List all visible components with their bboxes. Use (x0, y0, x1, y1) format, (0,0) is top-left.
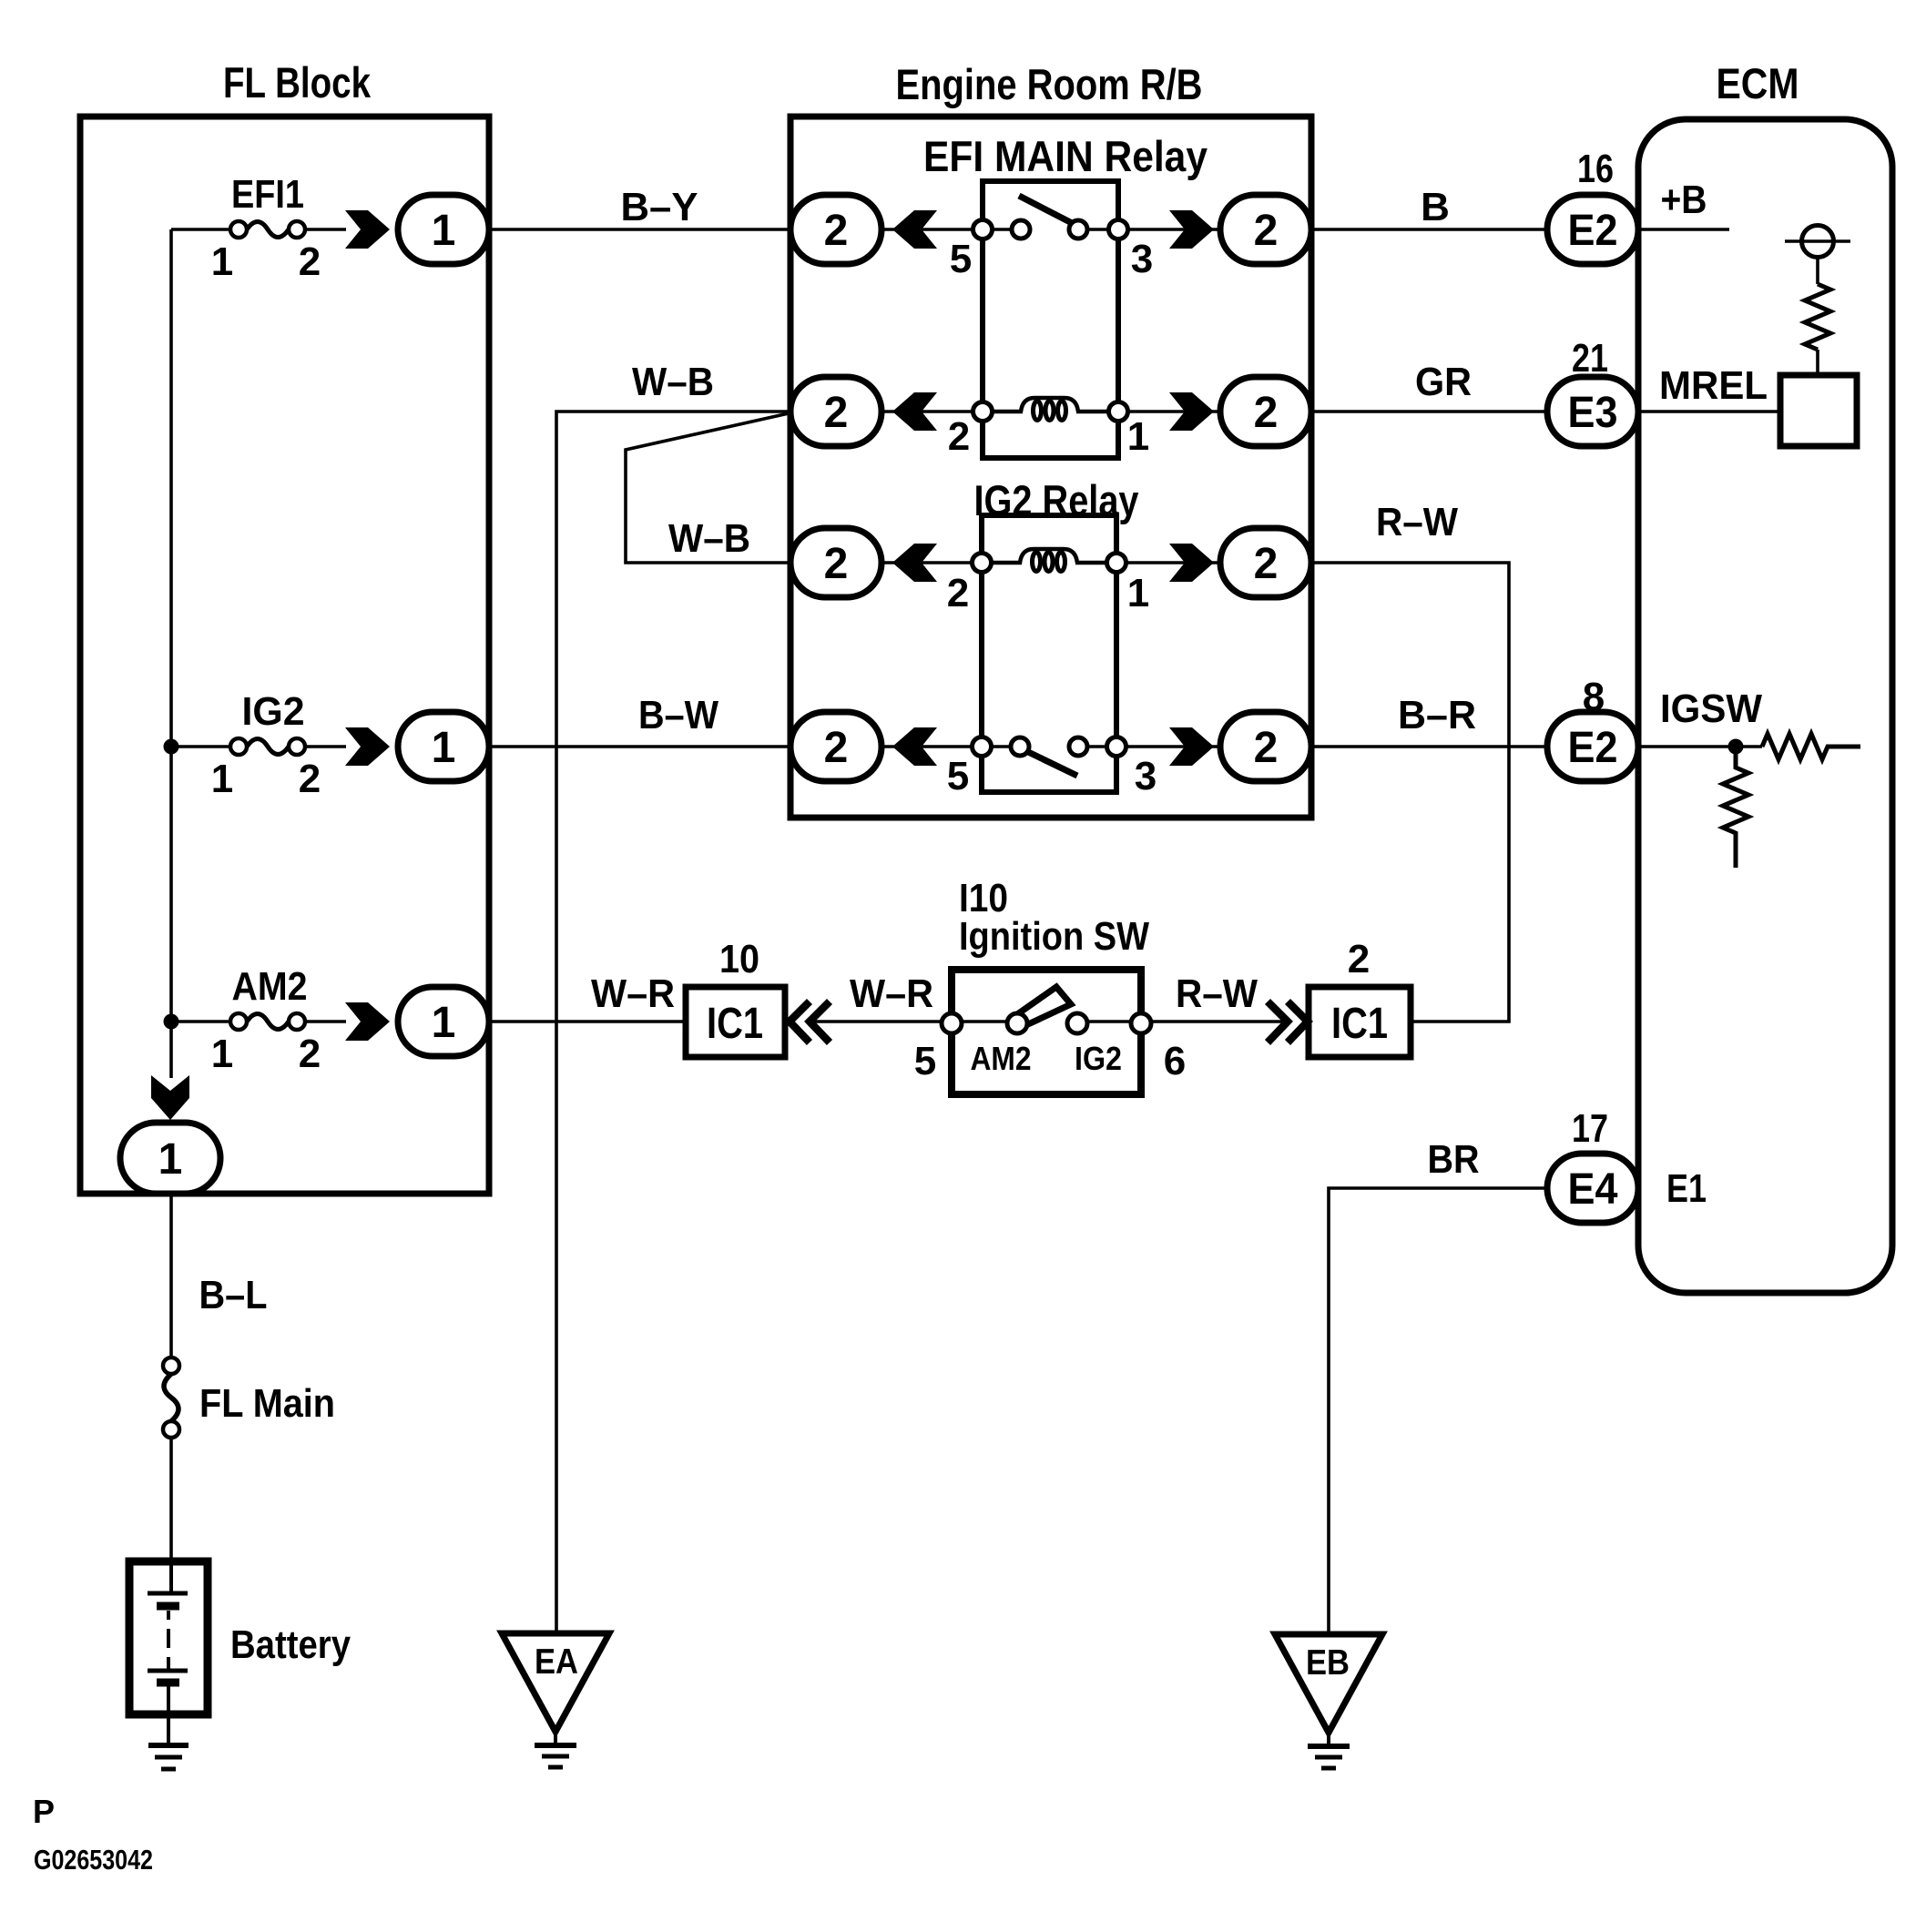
wire FL bus vertical B-L (169, 229, 173, 1078)
wire battery to ground (167, 1683, 170, 1744)
svg-text:2: 2 (947, 571, 969, 615)
svg-text:2: 2 (824, 389, 849, 437)
wire AM2 fuse row left (171, 1020, 230, 1023)
svg-text:IG2: IG2 (1075, 1040, 1122, 1077)
svg-text:1: 1 (432, 999, 456, 1047)
svg-text:IC1: IC1 (1331, 1000, 1388, 1048)
connector oval 2 row4 right (1220, 712, 1311, 781)
svg-text:IG2: IG2 (242, 689, 305, 734)
svg-text:1: 1 (432, 207, 456, 255)
svg-text:16: 16 (1577, 147, 1614, 191)
svg-text:W–R: W–R (850, 971, 933, 1016)
ground EB (1275, 1634, 1382, 1768)
svg-text:2: 2 (299, 239, 321, 284)
wire contact to relay pin3 row4 (1087, 745, 1116, 748)
Battery (129, 1561, 351, 1744)
wire EFI1 row left (171, 228, 230, 231)
wire relay pin3 to oval row1 (1118, 228, 1220, 231)
wire B-Y (489, 228, 790, 231)
wire IG2 fuse row left (171, 745, 230, 748)
svg-text:IGSW: IGSW (1660, 686, 1762, 731)
svg-text:R–W: R–W (1376, 500, 1458, 544)
svg-text:E2: E2 (1568, 207, 1618, 255)
svg-text:G02653042: G02653042 (34, 1844, 153, 1876)
wire into battery (169, 1561, 173, 1593)
relay switch blade (1024, 750, 1077, 776)
ignition pin 6 (1131, 1013, 1151, 1033)
wire pullup through circle (1785, 239, 1850, 243)
svg-text:6: 6 (1164, 1039, 1186, 1083)
connector oval 2 row3 left (790, 528, 881, 597)
wire GR to ECM E3 (1311, 410, 1547, 413)
arrow into connector AM2 (345, 1002, 390, 1041)
svg-text:B–L: B–L (199, 1273, 268, 1317)
arrow row1 right (into right oval) (1169, 210, 1214, 249)
svg-text:B–Y: B–Y (621, 185, 698, 229)
MREL driver module (1780, 375, 1857, 446)
arrow into connector EFI1 (345, 210, 390, 249)
svg-text:EB: EB (1306, 1643, 1350, 1683)
wire R-W ignition to IC1 (1141, 1020, 1287, 1023)
junction dot AM2 row (164, 1014, 179, 1030)
connector oval 1 (FL bottom) (120, 1123, 220, 1194)
wire AM2 fuse to arrow (305, 1020, 346, 1023)
svg-text:W–R: W–R (591, 971, 675, 1016)
connector oval 2 row1 right (1220, 195, 1311, 264)
svg-text:Engine Room R/B: Engine Room R/B (896, 60, 1203, 108)
svg-text:Battery: Battery (230, 1622, 351, 1667)
EFI MAIN Relay (923, 132, 1208, 459)
arrow row4 left (892, 727, 937, 766)
svg-text:ECM: ECM (1717, 59, 1799, 107)
arrow row3 left (892, 544, 937, 582)
connector oval 2 row1 left (790, 195, 881, 264)
wire W-B diagonal branch (626, 413, 790, 563)
wire R-W relay to IC1 (1309, 563, 1509, 1022)
svg-text:1: 1 (211, 239, 233, 284)
ECM connector E2 pin8 (1547, 675, 1762, 781)
FL Block box (80, 117, 489, 1194)
Engine Room R/B box (790, 117, 1311, 818)
connector oval 1 (IG2) (398, 712, 489, 781)
ECM internal pull-up circuit (1780, 226, 1857, 447)
svg-text:E4: E4 (1568, 1165, 1618, 1214)
svg-text:1: 1 (1127, 571, 1149, 615)
wire row3 oval to coil pin2 (881, 561, 992, 564)
svg-text:FL Block: FL Block (223, 58, 372, 107)
svg-text:17: 17 (1572, 1106, 1608, 1151)
ground EA (502, 1633, 609, 1767)
ignition contact AM2 (1007, 1013, 1027, 1033)
ignition pin 5 (942, 1013, 962, 1033)
Ignition SW I10 (914, 876, 1186, 1094)
svg-text:10: 10 (719, 937, 759, 981)
svg-text:EFI MAIN Relay: EFI MAIN Relay (923, 132, 1208, 180)
plate long bottom (148, 1669, 188, 1673)
svg-text:1: 1 (158, 1135, 183, 1184)
svg-text:5: 5 (947, 754, 969, 798)
svg-text:E3: E3 (1568, 389, 1618, 437)
svg-text:21: 21 (1572, 336, 1608, 381)
svg-text:GR: GR (1415, 360, 1472, 404)
junction dot IG2 row (164, 739, 179, 755)
wire B-W (489, 745, 790, 748)
wire coil pin1 to oval row2 (1108, 410, 1220, 413)
wire pullup resistor to module (1816, 350, 1819, 375)
relay pin 5 (973, 220, 993, 239)
wire inside IG2 to pin6 (1077, 1020, 1141, 1023)
svg-text:B: B (1421, 185, 1450, 229)
relay pin 5 (973, 737, 992, 757)
ground below battery (148, 1745, 189, 1769)
svg-text:BR: BR (1428, 1137, 1480, 1182)
wire W-B row2 (556, 412, 790, 1633)
fuse IG2 (211, 689, 321, 801)
svg-text:2: 2 (299, 757, 321, 801)
svg-text:P: P (33, 1793, 55, 1830)
arrow into connector IG2 (345, 727, 390, 766)
FL Main fusible link (163, 1357, 335, 1438)
wire IG2 fuse to arrow (305, 745, 346, 748)
connector IC1 (2) (1268, 937, 1411, 1057)
wire IGSW row (1638, 745, 1762, 748)
svg-text:1: 1 (211, 1032, 233, 1076)
ECM connector E2 pin16 (1547, 147, 1707, 264)
relay pin 1 (1109, 402, 1128, 422)
svg-text:2: 2 (1254, 207, 1279, 255)
svg-text:E2: E2 (1568, 724, 1618, 772)
wire relay pin5 to contact row4 (982, 745, 1011, 748)
svg-text:W–B: W–B (632, 360, 714, 404)
svg-text:IC1: IC1 (707, 1000, 763, 1048)
wire ignition pin5 to AM2 contact (952, 1020, 1017, 1023)
connector oval 1 (AM2) (398, 987, 489, 1056)
ECM connector E4 pin17 (1547, 1106, 1707, 1223)
relay pin 3 (1109, 220, 1128, 239)
svg-text:2: 2 (1254, 540, 1279, 588)
wire pullup circle to resistor (1816, 256, 1819, 284)
pull-up terminal circle (1802, 226, 1834, 258)
wire FL Main to battery (169, 1438, 173, 1561)
wire IC1 to ignition sw pin5 (810, 1020, 952, 1023)
IG2 Relay (947, 476, 1157, 798)
connector oval 2 row4 left (790, 712, 881, 781)
plate short thick top (157, 1602, 179, 1611)
svg-text:W–B: W–B (668, 516, 750, 561)
svg-text:IG2 Relay: IG2 Relay (974, 476, 1139, 524)
relay coil (992, 549, 1106, 563)
relay contact circles row4 (1011, 737, 1029, 756)
ignition contact IG2 (1067, 1013, 1087, 1033)
wire coil pin1 to oval row3 (1106, 561, 1220, 564)
chevrons pointing right (1268, 1002, 1288, 1042)
wire B-R to ECM E2 (1311, 745, 1545, 748)
plate long top (148, 1591, 188, 1596)
wire relay pin5 to contact (983, 228, 1012, 231)
plate short thick bottom (157, 1679, 179, 1687)
svg-text:R–W: R–W (1176, 971, 1258, 1016)
arrow row2 left (892, 392, 937, 431)
connector IC1 (10) (686, 937, 830, 1057)
wire contact to relay pin3 (1087, 228, 1118, 231)
arrow row3 right (1169, 544, 1214, 582)
wire BR from ECM E4 to EB (1329, 1188, 1547, 1634)
resistor horizontal (1762, 734, 1860, 759)
svg-text:+B: +B (1661, 178, 1707, 222)
svg-text:2: 2 (948, 414, 970, 459)
svg-text:1: 1 (432, 724, 456, 772)
wire B to ECM E2 (1311, 228, 1547, 231)
svg-text:3: 3 (1131, 237, 1153, 281)
arrow row2 right (1169, 392, 1214, 431)
wire MREL to module (1638, 410, 1780, 413)
svg-text:FL Main: FL Main (199, 1381, 335, 1426)
svg-text:5: 5 (950, 237, 972, 281)
fuse AM2 (211, 964, 321, 1076)
pull-up resistor (1805, 284, 1830, 350)
svg-text:1: 1 (211, 757, 233, 801)
wire IG2 contact to pin6 (1077, 1020, 1141, 1023)
wire +B stub (1638, 228, 1729, 231)
fuse EFI1 (211, 172, 321, 284)
relay contact circles row1 (1012, 220, 1030, 239)
arrow down to FL bottom connector (151, 1075, 189, 1120)
relay pin 1 (1107, 554, 1126, 573)
svg-text:2: 2 (824, 207, 849, 255)
svg-text:3: 3 (1135, 754, 1157, 798)
relay pin 2 (973, 554, 992, 573)
wire inside pin5 to AM2 (952, 1020, 1017, 1023)
ECM connector E3 pin21 (1547, 336, 1768, 446)
svg-text:AM2: AM2 (232, 964, 308, 1009)
relay switch blade (1019, 196, 1075, 225)
svg-text:E1: E1 (1666, 1166, 1707, 1211)
svg-text:B–R: B–R (1398, 693, 1476, 737)
svg-text:2: 2 (824, 724, 849, 772)
switch blade wedge (1020, 987, 1071, 1024)
svg-text:2: 2 (824, 540, 849, 588)
relay pin 2 (973, 402, 993, 422)
connector oval 2 row2 left (790, 377, 881, 446)
connector oval 1 (EFI1) (398, 195, 489, 264)
svg-text:EA: EA (535, 1642, 578, 1682)
connector oval 2 row2 right (1220, 377, 1311, 446)
relay coil (993, 398, 1108, 412)
ECM box (1638, 119, 1892, 1293)
svg-text:2: 2 (1348, 937, 1370, 981)
relay pin 3 (1107, 737, 1126, 757)
svg-text:AM2: AM2 (971, 1040, 1032, 1077)
wire row4 oval to relay pin5 (881, 745, 982, 748)
svg-text:2: 2 (299, 1032, 321, 1076)
wire relay pin3 to oval row4 (1116, 745, 1220, 748)
wire W-R to IC1 (489, 1020, 686, 1023)
svg-text:5: 5 (914, 1039, 936, 1083)
svg-text:8: 8 (1583, 675, 1605, 719)
wire EFI1 fuse to arrow (305, 228, 346, 231)
svg-text:2: 2 (1254, 724, 1279, 772)
internal dashed link (167, 1611, 170, 1620)
svg-text:B–W: B–W (638, 693, 718, 737)
wire row1 oval to relay pin5 (881, 228, 983, 231)
wire row2 oval to coil pin2 (881, 410, 993, 413)
arrow row4 right (1169, 727, 1214, 766)
svg-text:2: 2 (1254, 389, 1279, 437)
resistor vertical (1723, 747, 1748, 868)
chevrons pointing left (790, 1002, 810, 1042)
svg-text:1: 1 (1127, 414, 1149, 459)
ECM internal IGSW resistors (1723, 734, 1860, 868)
svg-text:MREL: MREL (1659, 363, 1768, 408)
wire below FL block to FL Main (169, 1194, 173, 1357)
connector oval 2 row3 right (1220, 528, 1311, 597)
svg-text:EFI1: EFI1 (231, 172, 304, 217)
arrow row1 left (into left oval) (892, 210, 937, 249)
junction dot IGSW (1728, 739, 1744, 755)
svg-text:Ignition SW: Ignition SW (959, 914, 1149, 959)
